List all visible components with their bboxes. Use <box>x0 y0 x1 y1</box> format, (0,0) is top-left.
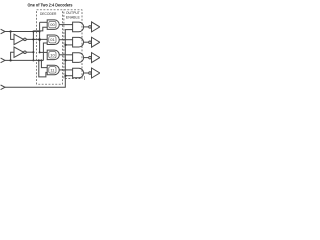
svg-text:10: 10 <box>50 52 55 57</box>
and gate 01 <box>47 35 59 45</box>
wire B-bar <box>26 51 33 53</box>
output buffer 2 <box>89 41 92 44</box>
wire out 1 <box>84 26 89 28</box>
enable and gate 4 <box>73 68 84 78</box>
svg-text:ENABLE: ENABLE <box>66 16 81 20</box>
wire A branch to inverter <box>11 32 14 40</box>
wire row3 upper input <box>40 51 48 53</box>
inverter U2 <box>14 47 24 57</box>
node B input junction <box>10 59 12 61</box>
node B branch row4 lower <box>38 59 40 61</box>
svg-text:11: 11 <box>50 67 55 72</box>
output enable dashed box <box>64 10 82 79</box>
wire row1 upper input <box>40 21 48 23</box>
wire enable tap 2 <box>66 44 73 46</box>
and gate 10 <box>47 50 59 60</box>
wire out 3 <box>84 57 89 59</box>
svg-text:00: 00 <box>50 22 55 27</box>
wire vertical bus x32.8 <box>32 31 34 61</box>
svg-text:DECODER: DECODER <box>40 12 57 16</box>
enable and gate 3 <box>73 53 84 63</box>
node junction x32.8 A-bar line <box>32 38 34 40</box>
wire B true <box>5 59 43 61</box>
wire out 4 <box>84 72 89 74</box>
wire B to row4 upper <box>41 60 47 67</box>
wire B down to row4 lower <box>39 60 47 77</box>
wire enable riser <box>5 30 73 88</box>
svg-text:One of Two 2:4 Decoders: One of Two 2:4 Decoders <box>28 2 74 7</box>
input arrow B <box>1 58 5 63</box>
wire enable tap 3 <box>66 59 73 61</box>
wire out 2 <box>84 41 89 43</box>
node big junction A-bar <box>38 38 41 41</box>
stray tick <box>83 76 85 80</box>
output buffer 3 <box>89 56 92 59</box>
wire decode out 4 <box>59 69 72 71</box>
node A input junction <box>10 30 12 32</box>
input arrow E <box>1 85 5 90</box>
enable and gate 2 <box>73 37 84 47</box>
inverter U1 <box>14 34 24 44</box>
and gate 00 <box>47 20 59 30</box>
node B branch row4 upper <box>40 59 42 61</box>
node junction row3 tap <box>39 51 41 53</box>
node junction x32.8 A line <box>32 31 34 33</box>
wire enable tap 4 <box>66 75 73 77</box>
wire B up to row2 lower <box>43 43 47 60</box>
wire decode out 1 <box>59 24 72 26</box>
output buffer 4 <box>89 72 92 75</box>
wire B branch to inverter <box>11 52 14 60</box>
wire A-bar to row2 upper <box>26 38 47 40</box>
node junction x32.8 B line <box>32 59 34 61</box>
node junction x32.8 B-bar line <box>32 51 34 53</box>
svg-text:OUTPUT: OUTPUT <box>66 11 81 15</box>
input arrow A <box>1 29 5 34</box>
output buffer 1 <box>89 26 92 29</box>
node junction A line x39.6 <box>39 31 41 33</box>
wire row1 lower jog <box>33 27 47 31</box>
decoder dashed box <box>37 10 63 84</box>
svg-text:01: 01 <box>50 37 55 42</box>
wire A true <box>5 31 40 33</box>
wire vertical bus x39.6 <box>39 22 41 52</box>
wire decode out 3 <box>59 54 72 56</box>
wire decode out 2 <box>59 39 72 41</box>
enable and gate 1 <box>73 22 84 32</box>
and gate 11 <box>47 65 59 75</box>
